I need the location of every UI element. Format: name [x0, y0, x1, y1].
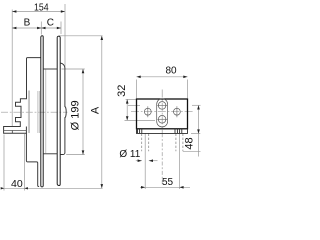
- svg-text:32: 32: [116, 85, 128, 97]
- svg-text:Ø 199: Ø 199: [70, 100, 82, 130]
- svg-text:48: 48: [184, 137, 196, 149]
- svg-text:55: 55: [162, 177, 174, 188]
- svg-text:80: 80: [165, 65, 177, 76]
- svg-text:B: B: [24, 17, 31, 28]
- svg-text:Ø 11: Ø 11: [119, 149, 140, 160]
- svg-text:154: 154: [34, 2, 49, 14]
- svg-text:A: A: [90, 106, 102, 114]
- svg-text:C: C: [47, 17, 54, 28]
- svg-text:40: 40: [11, 178, 23, 190]
